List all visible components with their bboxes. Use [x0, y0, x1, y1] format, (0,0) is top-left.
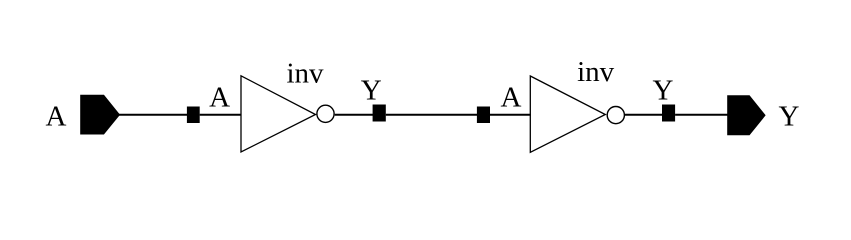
- inverter U1 output bubble: [317, 105, 334, 122]
- svg-text:A: A: [46, 101, 67, 133]
- inverter U2 triangle: [530, 76, 605, 152]
- inverter U1 triangle: [241, 76, 316, 152]
- pin A of U2: [477, 107, 490, 124]
- wire U1 pin Y to U2 pin A: [386, 114, 477, 116]
- svg-text:Y: Y: [779, 100, 800, 132]
- svg-text:A: A: [501, 82, 522, 114]
- pin Y of U1: [373, 105, 386, 122]
- svg-text:inv: inv: [577, 56, 615, 88]
- svg-text:inv: inv: [286, 58, 324, 90]
- svg-text:Y: Y: [653, 74, 674, 106]
- wire U2 pin Y to output port: [675, 114, 729, 116]
- pin Y of U2: [662, 105, 675, 122]
- wire input to U1 pin A: [118, 114, 188, 116]
- wire U2 bubble to pin Y: [625, 114, 663, 116]
- svg-text:A: A: [209, 82, 230, 114]
- wire U1 pin A to triangle: [200, 114, 242, 116]
- output port Y: [728, 96, 765, 135]
- svg-text:Y: Y: [361, 75, 382, 107]
- wire U1 bubble to pin Y: [335, 114, 373, 116]
- wire U2 pin A to triangle: [490, 114, 531, 116]
- pin A of U1: [187, 107, 200, 124]
- input port A: [81, 95, 120, 134]
- inverter U2 output bubble: [607, 107, 624, 124]
